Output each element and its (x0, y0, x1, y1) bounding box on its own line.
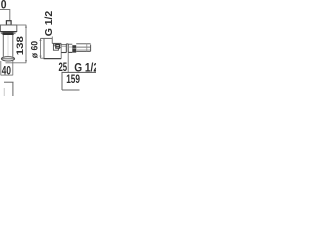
svg-text:138: 138 (15, 36, 26, 55)
svg-text:40: 40 (2, 64, 11, 78)
svg-text:ø 60: ø 60 (30, 41, 40, 58)
svg-text:G 1/2: G 1/2 (44, 11, 55, 37)
svg-text:159: 159 (66, 72, 80, 86)
